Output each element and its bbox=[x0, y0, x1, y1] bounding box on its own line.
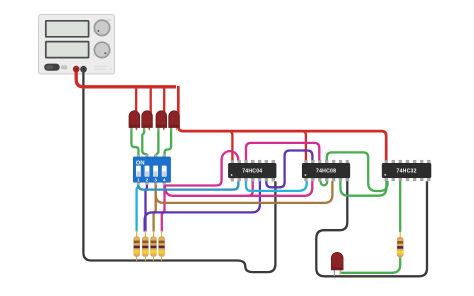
svg-text:74HC08: 74HC08 bbox=[316, 169, 336, 175]
svg-text:74HC04: 74HC04 bbox=[242, 169, 262, 175]
svg-text:A: A bbox=[110, 67, 112, 71]
svg-text:12V: 12V bbox=[107, 18, 112, 22]
svg-text:3A: 3A bbox=[107, 43, 110, 47]
svg-text:74HC32: 74HC32 bbox=[396, 169, 416, 175]
